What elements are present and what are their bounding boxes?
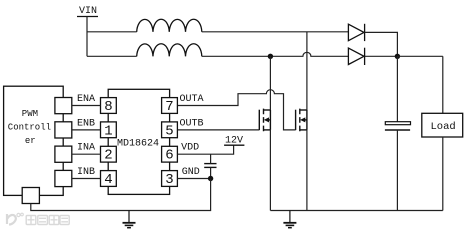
PWM controller box	[4, 86, 64, 195]
wire INA	[72, 153, 101, 155]
node VIN underline	[77, 16, 98, 18]
node VIN label	[79, 6, 97, 17]
capacitor C2 (output, polarized)	[385, 122, 411, 130]
PWM pin square row3	[55, 146, 72, 162]
junction dot rails output	[395, 54, 400, 59]
PWM bottom pin square	[22, 188, 39, 204]
diode D2	[348, 48, 364, 65]
capacitor C1 (decoupling)	[204, 164, 216, 168]
svg-text:er: er	[25, 136, 36, 146]
wire cap C2 bottom	[396, 130, 398, 211]
pin 8 box	[101, 98, 117, 114]
power 12V label	[225, 136, 243, 147]
pin 2 box	[101, 146, 117, 162]
svg-text:MD18624: MD18624	[117, 139, 159, 150]
ground G1	[123, 211, 136, 228]
transistor Q2 arrow	[300, 117, 305, 122]
svg-text:PWM: PWM	[22, 109, 38, 119]
pin 5 box	[162, 122, 178, 138]
transistor Q1 (NMOS)	[259, 109, 270, 132]
wire ENB	[72, 129, 101, 131]
wire VDD to 12V	[177, 145, 233, 154]
diode D1	[348, 24, 364, 41]
svg-text:6: 6	[165, 148, 173, 164]
wire Q2 drain up	[306, 32, 308, 110]
wire OUTA with hop over Q1 drain	[177, 90, 295, 130]
svg-text:1: 1	[104, 123, 112, 139]
wire bottom rail with hop over Q2 drain	[202, 52, 349, 56]
junction dot Q1 drain on bottom rail	[268, 54, 273, 59]
watermark logo	[7, 213, 69, 224]
svg-text:3: 3	[165, 172, 173, 188]
wire GND	[177, 178, 210, 180]
wire load bottom	[442, 137, 444, 211]
net labels right	[180, 94, 204, 178]
svg-text:7: 7	[165, 99, 173, 115]
wire D1 cathode to corner	[365, 32, 398, 56]
pin 1 box	[101, 122, 117, 138]
PWM pin square row2	[55, 122, 72, 138]
svg-text:INB: INB	[77, 167, 95, 178]
svg-text:ENB: ENB	[77, 118, 95, 129]
svg-text:OUTA: OUTA	[180, 94, 204, 105]
ground G2	[283, 211, 296, 228]
svg-text:OUTB: OUTB	[180, 118, 204, 129]
wire GND down and left to PWM	[31, 179, 211, 211]
pin 4 box	[101, 171, 117, 187]
svg-text:GND: GND	[182, 167, 200, 178]
net labels left	[77, 94, 95, 178]
pin 7 box	[162, 98, 178, 114]
svg-text:VDD: VDD	[181, 143, 199, 154]
wire bottom rail left	[87, 55, 137, 57]
IC U1 MD18624 body	[108, 89, 169, 194]
svg-text:12V: 12V	[225, 136, 243, 147]
junction dot GND/C1	[208, 176, 213, 181]
power 12V bar	[224, 144, 244, 146]
wire output junction to load corner	[397, 55, 442, 57]
wire VIN vertical	[86, 17, 88, 57]
wire load top drop	[442, 56, 444, 113]
inductor L2 (bottom winding)	[137, 44, 202, 57]
svg-text:Controll: Controll	[8, 123, 51, 133]
load box	[422, 113, 463, 137]
wire D2 cathode to junction	[365, 55, 398, 57]
wire top rail left	[87, 31, 137, 33]
pin 6 box	[162, 146, 178, 162]
svg-text:2: 2	[104, 148, 112, 164]
wire Q1 source down	[269, 130, 271, 211]
wire ENA	[72, 105, 101, 107]
svg-text:4: 4	[104, 172, 112, 188]
wire Q2 source down	[306, 130, 308, 211]
svg-text:INA: INA	[77, 143, 95, 154]
wire Q1 drain up	[269, 56, 271, 110]
transistor Q1 arrow	[264, 117, 269, 122]
transistor Q2 (NMOS)	[296, 109, 307, 132]
inductor L1 (top winding)	[137, 19, 202, 32]
svg-text:8: 8	[104, 99, 112, 115]
wire cap C1 bottom	[210, 167, 212, 178]
wire OUTB to Q1 gate	[177, 129, 259, 131]
wire top rail right	[202, 31, 349, 33]
pin 3 box	[162, 171, 178, 187]
svg-text:5: 5	[165, 123, 173, 139]
svg-text:Load: Load	[431, 121, 456, 133]
svg-text:ENA: ENA	[77, 94, 95, 105]
wire cap C2 top	[396, 56, 398, 121]
svg-text:VIN: VIN	[79, 6, 97, 17]
PWM pin square row1	[55, 98, 72, 114]
wire cap C1 top	[210, 154, 212, 163]
wire INB	[72, 178, 101, 180]
PWM pin square row4	[55, 170, 72, 186]
wire source rail bottom	[270, 210, 442, 212]
